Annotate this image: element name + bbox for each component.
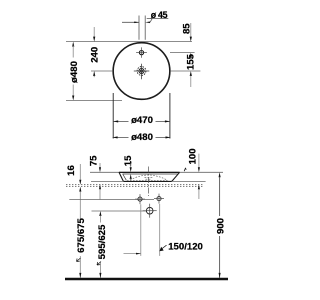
side view: hidden drain dashes	[145, 178, 153, 180]
svg-text:15: 15	[123, 155, 134, 166]
side view: basin top extension line	[90, 171, 223, 173]
drain extension line (side)	[92, 210, 147, 212]
dim 900 column	[219, 172, 221, 177]
dim 85 line	[190, 23, 192, 37]
svg-text:85: 85	[182, 23, 193, 34]
side view: basin bottom edge	[123, 180, 171, 182]
basin bottom extension left	[91, 180, 123, 182]
countertop dotted lines	[66, 184, 203, 186]
svg-text:ø480: ø480	[131, 132, 153, 143]
svg-text:ø 45: ø 45	[151, 10, 168, 20]
svg-text:ø470: ø470	[131, 115, 153, 126]
supply extension line	[69, 198, 154, 200]
rim top extension line	[66, 41, 192, 43]
svg-text:900: 900	[215, 218, 226, 234]
dim 100 leader tick	[184, 168, 186, 171]
drain extension line right	[170, 70, 200, 72]
faucet hole circle	[139, 51, 143, 55]
svg-text:150/120: 150/120	[168, 242, 203, 253]
drain solid circle	[139, 68, 144, 73]
svg-text:75: 75	[89, 155, 100, 166]
dim ø480 left column	[72, 42, 74, 47]
dim 155 bottom arrow	[190, 71, 192, 76]
dim ø470 line	[113, 120, 128, 122]
side view: basin inner left slant	[123, 174, 127, 180]
dim 240 top tail	[93, 27, 95, 37]
supply drop line right	[159, 204, 161, 256]
drain connection	[146, 207, 153, 214]
floor line	[65, 278, 228, 280]
bottom tangent extension line	[66, 100, 122, 102]
dim ø45 left leader	[122, 21, 139, 23]
dim 595/625 leader mark	[97, 262, 101, 266]
dim ø45 extension lines	[138, 16, 140, 40]
svg-text:155: 155	[185, 53, 196, 70]
side view: basin top edge	[119, 171, 180, 173]
basin outer circle (top view)	[113, 42, 170, 99]
side view: basin inner top line	[123, 173, 179, 175]
dim 595/625 column	[99, 211, 101, 216]
dim 150/120 leader arrow	[160, 245, 167, 251]
dim 155 top arrow	[190, 53, 192, 58]
faucet hole cross	[141, 47, 143, 57]
svg-text:675/675: 675/675	[76, 218, 87, 253]
dim ø45 right arrow	[145, 21, 150, 23]
side view: center axis	[147, 167, 149, 197]
side view: basin left slant	[119, 172, 123, 181]
side view: interior hidden lines	[127, 180, 169, 182]
svg-text:ø480: ø480	[69, 61, 80, 83]
svg-text:100: 100	[187, 148, 198, 164]
svg-text:595/625: 595/625	[97, 224, 108, 259]
drain dashed circle	[137, 67, 146, 76]
basin inner circle (top view)	[114, 43, 170, 99]
dim 675/675 leader mark	[77, 258, 81, 262]
side view: basin right slant	[172, 172, 180, 181]
dim 675/675 line	[79, 191, 81, 219]
svg-text:16: 16	[66, 165, 77, 176]
basin bottom extension right	[172, 180, 206, 182]
dim 240 bottom arrow	[93, 71, 95, 76]
faucet extension line right	[170, 52, 195, 54]
drain inner circle	[140, 70, 142, 72]
dim 150/120 left leader	[124, 253, 141, 255]
diameter extension line left	[112, 93, 114, 139]
diameter extension line right	[169, 93, 171, 139]
supply connection right	[157, 197, 161, 201]
supply connection left	[138, 197, 142, 201]
dim ø45 text underline	[147, 17, 169, 19]
drain extension line left	[91, 70, 113, 72]
drain cross	[141, 64, 143, 80]
dim ø480 bottom line	[113, 136, 129, 138]
dim 75 bottom arrow	[99, 184, 101, 189]
svg-text:240: 240	[89, 47, 100, 63]
supply drop line left	[140, 204, 142, 256]
